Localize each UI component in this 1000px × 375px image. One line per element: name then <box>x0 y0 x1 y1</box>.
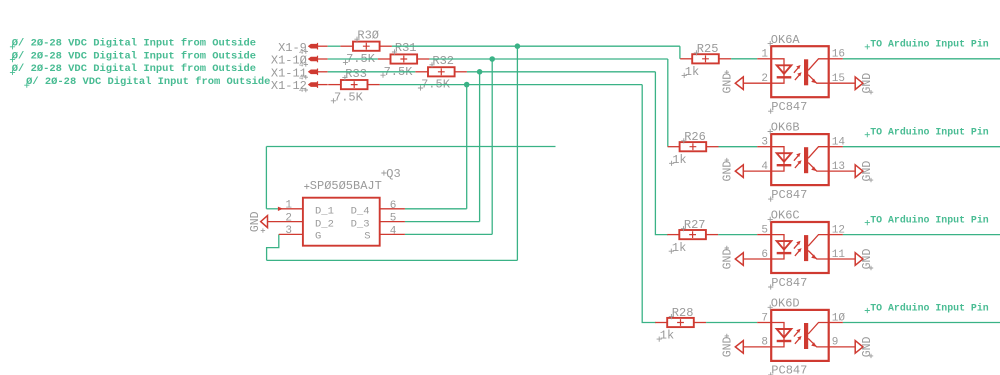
OK6D light arrow 2 <box>795 338 800 344</box>
OK6D pin 9 lead to ground <box>829 346 856 348</box>
OK6B collector <box>808 147 829 159</box>
wire drop row3 to R27 <box>655 72 668 235</box>
GND label at Q3 pin 2 <box>249 211 262 232</box>
OK6D collector <box>808 323 829 335</box>
wire Q3 pin5 to vertical <box>405 221 480 223</box>
svg-text:PC847: PC847 <box>771 100 807 114</box>
optocoupler OK6D body <box>771 310 829 361</box>
Q3 pin 2 <box>268 221 303 223</box>
wire X1-9 to R30 <box>328 45 341 47</box>
svg-text:R31: R31 <box>395 41 417 55</box>
svg-text:4: 4 <box>299 87 304 95</box>
OK6C pin 5 stub <box>757 234 771 236</box>
resistor R25 <box>692 54 719 63</box>
wire dangling horizontal y=146.5 <box>266 146 555 148</box>
svg-text:1k: 1k <box>672 153 686 167</box>
svg-text:OK6C: OK6C <box>771 209 800 223</box>
Q3 right pin 5 <box>380 221 405 223</box>
svg-text:Q3: Q3 <box>386 167 400 181</box>
resistor R26 left lead <box>668 146 680 148</box>
OK6A pin 16 stub <box>829 58 843 60</box>
OK6B pin 4 lead to ground <box>743 170 771 172</box>
wire junction row3 down to Q3 pin5 <box>479 72 481 222</box>
ground symbol left of OK6A <box>735 77 743 90</box>
OK6B LED cathode bar <box>777 164 792 166</box>
OK6C pin 11 lead to ground <box>829 258 856 260</box>
OK6B light arrow 2 <box>795 162 800 168</box>
resistor R33 right lead <box>368 84 380 86</box>
svg-text:3: 3 <box>285 225 292 237</box>
OK6C light arrow 2 <box>795 250 800 256</box>
ground symbol right of OK6A <box>855 77 863 90</box>
wire Q3 pin4 to vertical <box>405 233 492 235</box>
svg-text:8: 8 <box>761 337 768 349</box>
resistor R28 left lead <box>655 322 667 324</box>
resistor R32 left lead <box>415 71 428 73</box>
Q3 pin 3 <box>279 233 303 235</box>
junction at 479.6,71.8 <box>477 69 483 75</box>
svg-text:R26: R26 <box>684 130 706 144</box>
OK6D LED triangle <box>777 329 792 338</box>
GND label right of OK6D <box>861 336 874 357</box>
OK6C collector <box>808 235 829 247</box>
wire R25 to OK6A pin 1 <box>731 58 757 60</box>
svg-text:TO Arduino Input Pin: TO Arduino Input Pin <box>870 39 989 50</box>
OK6B pin 14 stub <box>829 146 843 148</box>
resistor R26 right lead <box>706 146 718 148</box>
optocoupler OK6A body <box>771 46 829 97</box>
OK6D emitter <box>808 338 829 347</box>
svg-text:1: 1 <box>285 200 292 212</box>
svg-text:R33: R33 <box>345 67 367 81</box>
wire junction row1 down to bottom net <box>516 46 518 260</box>
GND label left of OK6B <box>722 161 735 182</box>
resistor R3Ø left lead <box>340 45 353 47</box>
svg-text:R3Ø: R3Ø <box>357 28 379 42</box>
svg-text:6: 6 <box>761 249 768 261</box>
svg-text:OK6D: OK6D <box>771 297 800 311</box>
svg-text:2: 2 <box>761 73 768 85</box>
OK6C pin 6 lead to ground <box>743 258 771 260</box>
svg-text:5: 5 <box>761 224 768 236</box>
OK6C light arrow 1 <box>794 243 799 249</box>
svg-text:PC847: PC847 <box>771 276 807 290</box>
junction at 466.7,84.6 <box>464 82 470 88</box>
wire R26 to OK6B pin 3 <box>719 146 758 148</box>
OK6A pin 1 stub <box>757 58 771 60</box>
wire junction row2 down to Q3 pin4 <box>491 59 493 234</box>
OK6A LED triangle <box>777 65 792 74</box>
svg-text:1k: 1k <box>672 241 686 255</box>
wire R28 to OK6D pin 7 <box>706 322 757 324</box>
resistor R3Ø <box>353 42 380 51</box>
svg-text:Ø/ 2Ø-28 VDC Digital Input fro: Ø/ 2Ø-28 VDC Digital Input from Outside <box>12 63 256 75</box>
wire OK6A pin 16 to Arduino <box>843 58 1000 60</box>
wire bottom net y=260.4 <box>267 259 518 261</box>
svg-text:D_3: D_3 <box>351 219 370 231</box>
svg-text:GND: GND <box>722 249 735 270</box>
wire junction row4 down to Q3 pin6 <box>466 85 468 209</box>
connector pin X1-11 arrow <box>308 70 318 75</box>
wire Q3 pin3 step <box>267 234 279 260</box>
OK6A pin 15 lead to ground <box>829 82 856 84</box>
resistor R26 <box>680 142 707 151</box>
resistor R25 left lead <box>680 58 692 60</box>
ground symbol at Q3 pin 2 <box>261 216 268 228</box>
resistor R25 right lead <box>719 58 731 60</box>
svg-text:GND: GND <box>861 249 874 270</box>
OK6D pin 7 stub <box>757 322 771 324</box>
svg-text:7.5K: 7.5K <box>334 90 364 104</box>
OK6A light arrow 1 <box>794 67 799 73</box>
OK6C LED cathode bar <box>777 252 792 254</box>
OK6B LED triangle <box>777 153 792 162</box>
OK6D light arrow 1 <box>794 331 799 337</box>
wire OK6B pin 14 to Arduino <box>843 146 1000 148</box>
svg-text:R27: R27 <box>684 218 706 232</box>
wire row4: R33 to corner at x=642.2 <box>380 84 642 86</box>
resistor R28 right lead <box>694 322 706 324</box>
wire drop row1 to R25 <box>679 46 681 59</box>
Q3 right pin 4 <box>380 233 405 235</box>
wire OK6D pin 1Ø to Arduino <box>843 322 1000 324</box>
ground symbol right of OK6C <box>855 253 863 266</box>
ground symbol left of OK6B <box>735 165 743 178</box>
svg-text:OK6B: OK6B <box>771 121 800 135</box>
ground symbol left of OK6C <box>735 253 743 266</box>
svg-text:D_2: D_2 <box>315 219 334 231</box>
svg-text:2: 2 <box>285 212 292 224</box>
OK6A LED cathode bar <box>777 76 792 78</box>
ground symbol right of OK6B <box>855 165 863 178</box>
svg-text:SPØ5Ø5BAJT: SPØ5Ø5BAJT <box>310 179 382 193</box>
svg-text:TO Arduino Input Pin: TO Arduino Input Pin <box>870 127 989 138</box>
OK6D pin 8 lead to ground <box>743 346 771 348</box>
svg-text:R25: R25 <box>697 42 719 56</box>
wire drop row4 to R28 <box>642 85 656 323</box>
GND label left of OK6C <box>722 249 735 270</box>
svg-text:3: 3 <box>761 137 768 149</box>
wire R27 to OK6C pin 5 <box>718 234 757 236</box>
resistor R31 left lead <box>378 58 391 60</box>
OK6C LED wiring <box>771 235 784 259</box>
svg-text:Ø/ 2Ø-28 VDC Digital Input fro: Ø/ 2Ø-28 VDC Digital Input from Outside <box>12 38 256 50</box>
optocoupler OK6B body <box>771 134 829 185</box>
svg-text:GND: GND <box>861 336 874 357</box>
GND label left of OK6A <box>722 73 735 94</box>
svg-text:PC847: PC847 <box>771 364 807 375</box>
resistor R33 <box>341 80 368 89</box>
connector pin X1-9 arrow <box>308 44 318 49</box>
pin wire X1-12 <box>317 84 327 86</box>
svg-text:Ø/ 2Ø-28 VDC Digital Input fro: Ø/ 2Ø-28 VDC Digital Input from Outside <box>26 76 270 88</box>
wire row3: R32 to corner at x=655.4 <box>467 71 656 73</box>
IC Q3 SP0505BAJT body <box>303 198 380 246</box>
OK6A phototransistor base bar <box>804 59 808 85</box>
OK6B pin 3 stub <box>757 146 771 148</box>
wire row2: R31 to corner at x=667.8 <box>429 58 667 60</box>
svg-text:GND: GND <box>861 73 874 94</box>
svg-text:R32: R32 <box>432 54 454 68</box>
svg-text:7: 7 <box>761 312 768 324</box>
OK6C phototransistor base bar <box>804 235 808 261</box>
pin wire X1-11 <box>317 71 327 73</box>
OK6C emitter <box>808 251 829 260</box>
OK6D LED cathode bar <box>777 340 792 342</box>
svg-text:1k: 1k <box>660 329 674 343</box>
resistor R3Ø right lead <box>380 45 392 47</box>
wire OK6C pin 12 to Arduino <box>843 234 1000 236</box>
resistor R31 <box>391 54 418 63</box>
OK6B phototransistor base bar <box>804 147 808 173</box>
Q3 pin 1 <box>278 208 303 210</box>
svg-text:1: 1 <box>761 49 768 61</box>
wire X1-10 to R31 <box>328 58 378 60</box>
svg-text:PC847: PC847 <box>771 188 807 202</box>
svg-text:R28: R28 <box>672 306 694 320</box>
ground symbol left of OK6D <box>735 341 743 354</box>
svg-text:GND: GND <box>722 73 735 94</box>
svg-text:GND: GND <box>861 161 874 182</box>
OK6C LED triangle <box>777 241 792 250</box>
OK6B LED wiring <box>771 147 784 171</box>
OK6A pin 2 lead to ground <box>743 82 771 84</box>
connector pin X1-12 arrow <box>308 82 318 87</box>
wire Q3 pin6 to vertical <box>405 208 467 210</box>
wire row1: R30 to corner at x=679.9 <box>392 45 680 47</box>
svg-text:4: 4 <box>390 225 397 237</box>
OK6A emitter <box>808 75 829 84</box>
OK6D pin 1Ø stub <box>829 322 843 324</box>
resistor R33 left lead <box>328 84 341 86</box>
OK6B emitter <box>808 163 829 172</box>
svg-text:G: G <box>315 231 321 243</box>
pin wire X1-9 <box>317 45 327 47</box>
resistor R27 <box>679 230 706 239</box>
svg-text:1k: 1k <box>685 65 699 79</box>
resistor R27 left lead <box>667 234 679 236</box>
OK6D LED wiring <box>771 323 784 347</box>
pin wire X1-1Ø <box>317 58 327 60</box>
Q3 right pin 6 <box>380 208 405 210</box>
wire Q3 pin1 stub left <box>266 208 278 210</box>
svg-text:Ø/ 2Ø-28 VDC Digital Input fro: Ø/ 2Ø-28 VDC Digital Input from Outside <box>12 50 256 62</box>
svg-text:D_1: D_1 <box>315 206 334 218</box>
connector pin X1-1Ø arrow <box>308 57 318 62</box>
svg-text:S: S <box>364 231 370 243</box>
GND label right of OK6B <box>861 161 874 182</box>
svg-text:4: 4 <box>761 161 768 173</box>
resistor R28 <box>667 318 694 327</box>
wire drop row2 to R26 <box>667 59 669 147</box>
OK6C pin 12 stub <box>829 234 843 236</box>
OK6B light arrow 1 <box>794 155 799 161</box>
svg-text:OK6A: OK6A <box>771 33 801 47</box>
optocoupler OK6C body <box>771 222 829 273</box>
OK6A collector <box>808 59 829 71</box>
GND label right of OK6C <box>861 249 874 270</box>
OK6A light arrow 2 <box>795 74 800 80</box>
svg-text:5: 5 <box>390 213 397 225</box>
svg-text:GND: GND <box>722 336 735 357</box>
GND label left of OK6D <box>722 336 735 357</box>
svg-text:TO Arduino Input Pin: TO Arduino Input Pin <box>870 302 989 313</box>
resistor R32 <box>428 67 455 76</box>
resistor R27 right lead <box>706 234 718 236</box>
resistor R32 right lead <box>455 71 467 73</box>
wire vertical x=266.4 <box>265 147 267 209</box>
svg-text:6: 6 <box>390 200 397 212</box>
svg-text:GND: GND <box>249 211 262 232</box>
ground symbol right of OK6D <box>855 341 863 354</box>
svg-text:D_4: D_4 <box>351 206 370 218</box>
svg-text:GND: GND <box>722 161 735 182</box>
GND label right of OK6A <box>861 73 874 94</box>
wire X1-11 to R32 <box>328 71 416 73</box>
junction at 492.2,59.0 <box>489 56 495 62</box>
OK6A LED wiring <box>771 59 784 83</box>
OK6D phototransistor base bar <box>804 323 808 349</box>
junction at 517.4,46.2 <box>515 43 521 49</box>
svg-text:TO Arduino Input Pin: TO Arduino Input Pin <box>870 214 989 225</box>
OK6B pin 13 lead to ground <box>829 170 856 172</box>
resistor R31 right lead <box>417 58 429 60</box>
